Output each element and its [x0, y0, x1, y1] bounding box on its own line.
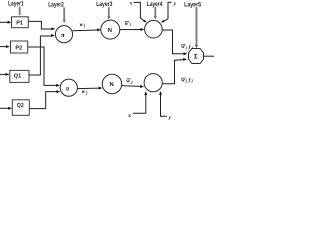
box Q2 — [12, 100, 29, 116]
wire SIGMA output — [204, 55, 215, 57]
node SIGMA (sum, octagon) — [189, 49, 204, 64]
svg-text:Layer2: Layer2 — [48, 1, 64, 8]
svg-text:Σ: Σ — [194, 54, 198, 60]
svg-text:π: π — [61, 32, 65, 39]
wire P2 to PI2 — [28, 47, 60, 87]
svg-text:w: w — [126, 79, 130, 85]
box P2 — [11, 41, 28, 53]
wire Q2 to PI2 — [29, 90, 60, 109]
svg-text:Layer5: Layer5 — [184, 1, 201, 8]
svg-text:2: 2 — [190, 80, 193, 84]
label w2 — [82, 89, 88, 95]
leader line Layer2 — [63, 7, 66, 23]
svg-text:1: 1 — [84, 24, 86, 28]
leader line Layer1 — [19, 7, 21, 16]
wire Q1 to PI1 — [29, 34, 55, 75]
svg-text:2: 2 — [130, 81, 133, 85]
box P1 — [12, 17, 29, 28]
svg-text:N: N — [108, 28, 112, 34]
svg-text:1: 1 — [185, 46, 187, 50]
svg-text:π: π — [66, 85, 70, 92]
node L4 bottom (adaptive) — [144, 74, 162, 92]
svg-text:P2: P2 — [15, 45, 22, 51]
wire input to Q2 — [0, 107, 12, 110]
node PI1 (product) — [55, 26, 72, 43]
svg-text:Layer3: Layer3 — [96, 1, 112, 8]
svg-text:2: 2 — [184, 80, 187, 84]
svg-text:Layer1: Layer1 — [8, 1, 24, 8]
node PI2 (product) — [60, 79, 77, 96]
wire input to Q1 — [0, 73, 9, 76]
label w1bar f1 — [181, 44, 193, 50]
wire w1 PI1 to N1 — [73, 28, 101, 31]
label w2bar f2 — [181, 77, 193, 83]
wire x input top — [134, 2, 147, 22]
wire input to P2 — [0, 45, 10, 48]
node L4 top (adaptive) — [145, 20, 163, 38]
svg-text:Q1: Q1 — [14, 74, 21, 80]
svg-text:2: 2 — [85, 91, 88, 95]
label w2bar — [126, 79, 132, 85]
leader line Layer5 — [195, 7, 198, 48]
wire y input top — [161, 2, 172, 22]
wire L4 top to SIGMA — [162, 30, 187, 55]
svg-text:Q2: Q2 — [17, 103, 24, 109]
leader line Layer4 — [154, 7, 157, 20]
wire input to P1 — [0, 21, 11, 24]
svg-text:x: x — [129, 0, 133, 6]
wire w1bar N1 to L4 top — [120, 28, 145, 31]
wire w2 PI2 to N2 — [77, 87, 102, 90]
wire w2bar N2 to L4 bottom — [122, 85, 144, 88]
wire y input bottom — [159, 91, 167, 116]
wire x input bottom — [133, 91, 148, 113]
leader line Layer3 — [107, 7, 110, 19]
label w1bar — [125, 21, 131, 27]
wire L4 bottom to SIGMA — [162, 58, 187, 84]
svg-text:1: 1 — [129, 23, 131, 27]
svg-text:P1: P1 — [16, 21, 23, 27]
node N1 (norm) — [101, 20, 120, 39]
wire P1 to PI1 — [28, 21, 55, 30]
svg-text:N: N — [110, 82, 114, 88]
svg-text:x: x — [127, 113, 131, 119]
node N2 (norm) — [102, 74, 121, 93]
label w1 — [80, 22, 86, 28]
svg-text:w: w — [125, 21, 129, 27]
box Q1 — [10, 70, 29, 82]
